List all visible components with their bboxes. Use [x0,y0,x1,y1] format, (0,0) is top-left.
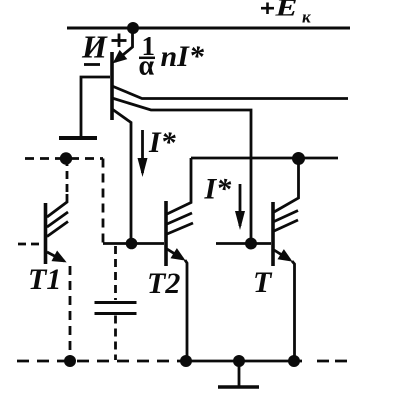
wire T2 base line [103,242,164,245]
svg-text:Т2: Т2 [147,267,180,300]
transistor T emitter with arrow [274,250,290,260]
ground (U source) [59,136,97,140]
node junction dot on +Ek rail [127,22,139,34]
transistor T1 base bar [44,203,48,264]
transistor T1 collector hatch lines [47,212,68,237]
node T base dot [245,238,257,250]
label fraction 1/alpha [139,31,156,82]
capacitor lower dashed lead [114,316,117,361]
wire +Ek top rail [67,27,350,30]
node T1 collector dot [60,152,72,164]
node bottom rail ground dot [233,355,245,367]
ground (bottom) [218,361,259,387]
transistor T base bar [271,202,275,266]
wire U collector 3 (to T2 base) [112,109,131,244]
label plus sign [112,34,127,48]
wire T1 emitter dashed down [69,266,72,361]
svg-text:α: α [139,51,155,82]
wire output node horizontal line [191,157,338,160]
wire T emitter down [292,261,295,361]
node bottom rail T2 emitter dot [180,355,192,367]
wire bottom rail dashed right section [294,360,302,363]
svg-text:И: И [81,29,108,65]
transistor T2 collector hatch lines [167,213,193,234]
svg-text:I*: I* [148,126,177,159]
svg-text:E: E [274,0,297,22]
wire T base line [216,242,271,245]
current arrow I* (right) [239,184,242,226]
wire bottom rail solid mid section [183,360,298,363]
transistor T1 emitter with arrow [47,252,64,261]
svg-text:к: к [302,8,311,27]
node T2 base dot [126,238,138,250]
wire bottom rail dashed left section [17,360,183,363]
capacitor upper dashed lead [114,246,117,300]
transistor T1 collector wire (dashed up) [47,161,67,217]
wire U collector 2 (to T base) [112,98,251,244]
capacitor plates [95,303,137,314]
transistor T2 collector wire [167,158,191,214]
transistor T2 emitter with arrow [167,249,183,259]
svg-text:Т: Т [253,266,273,299]
transistor T2 base bar [164,201,168,266]
label minus sign [84,63,100,66]
current arrow I* (left) [141,130,144,173]
current source U (multi-collector pnp) emitter wire with arrow [115,28,133,62]
svg-text:nI*: nI* [161,40,205,73]
wire U collector 1 (top horizontal to right) [112,86,348,99]
current source U base bar [110,52,114,120]
svg-text:I*: I* [204,173,233,206]
transistor T collector wire [274,159,299,213]
svg-text:Т1: Т1 [28,263,61,296]
wire dashed vertical to T2 base [102,159,105,244]
transistor T collector hatch lines [274,211,298,232]
node bottom rail T1 emitter dot [64,355,76,367]
node bottom rail T emitter dot [288,355,300,367]
label +Ek [261,3,274,15]
wire T2 emitter down [185,260,187,361]
wire U left lead to ground [81,77,110,136]
transistor T1 base dashed lead [18,243,44,246]
node output dot [292,152,305,165]
wire dashed node line (T1 collector node) [25,157,103,160]
